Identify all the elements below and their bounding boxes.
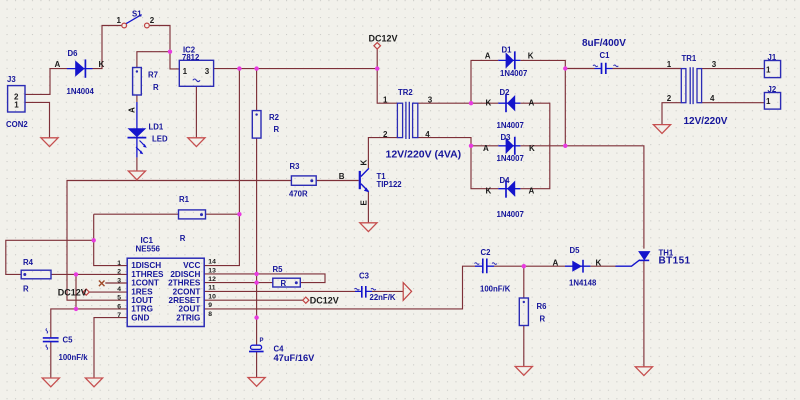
svg-text:1OUT: 1OUT	[131, 296, 153, 305]
wire bridge left bus top and D1 row	[471, 60, 498, 103]
svg-text:C1: C1	[600, 51, 611, 60]
svg-text:K: K	[486, 187, 492, 196]
svg-text:CON2: CON2	[6, 120, 28, 129]
wire D2 anode to D4 anode bus	[520, 103, 549, 189]
wire TR1 pin3 to J1	[702, 68, 765, 70]
port arrow after C3	[403, 283, 411, 301]
wire DC12V port drop	[376, 49, 378, 69]
IC1 pin name labels	[131, 261, 164, 322]
wire pin2 to pin6 vertical	[75, 274, 77, 309]
wire IC2 pin2 to ground	[195, 86, 197, 138]
ground at T1 emitter	[360, 223, 377, 232]
wire IC1 pin6 to C5	[51, 309, 127, 338]
wire VCC vertical to IC1 pin14	[204, 69, 239, 266]
wire S1 pin2 to IC2 pin1	[150, 26, 180, 69]
ground at TH1	[635, 367, 652, 376]
svg-text:C2: C2	[481, 248, 492, 257]
svg-text:12V/220V: 12V/220V	[684, 116, 728, 127]
wire LED cathode to ground	[136, 157, 138, 171]
wire R7 bottom to LED	[136, 95, 138, 102]
svg-text:J2: J2	[768, 85, 777, 94]
capacitor C2	[475, 259, 494, 274]
svg-text:DC12V: DC12V	[369, 34, 398, 44]
svg-text:2: 2	[150, 16, 155, 25]
svg-text:R: R	[153, 83, 159, 92]
svg-text:1TRG: 1TRG	[131, 305, 153, 314]
IC1 pin numbers	[117, 260, 121, 319]
ground at IC1 pin7	[85, 378, 102, 387]
svg-text:1RES: 1RES	[131, 287, 153, 296]
wire C5 bottom to ground	[50, 342, 52, 378]
ground at R6	[515, 367, 532, 376]
svg-text:6: 6	[117, 303, 121, 310]
svg-text:1N4007: 1N4007	[497, 121, 524, 130]
wire plus bus to C1	[565, 68, 594, 70]
wire D3 cathode to plus bus	[520, 145, 565, 147]
wire TR1 pin4 to J2	[702, 102, 765, 104]
resistor R4	[21, 270, 51, 279]
connector J1	[764, 61, 780, 78]
svg-text:4: 4	[425, 130, 430, 139]
svg-text:22nF/K: 22nF/K	[370, 293, 396, 302]
svg-text:3: 3	[428, 95, 433, 104]
svg-text:P: P	[260, 338, 264, 344]
svg-text:3: 3	[117, 277, 121, 284]
svg-text:1: 1	[117, 260, 121, 267]
wire D5 cathode to TH1 gate	[590, 265, 616, 267]
svg-text:K: K	[360, 160, 369, 166]
ground at TR1 pin2	[653, 125, 670, 134]
wire C3 to arrow port	[372, 290, 403, 292]
diode D3	[498, 137, 520, 155]
LED LD1	[128, 102, 147, 157]
wire TR2 pin3 to bridge	[418, 102, 471, 104]
svg-text:R4: R4	[23, 258, 34, 267]
svg-text:LED: LED	[152, 135, 168, 144]
svg-text:A: A	[485, 52, 491, 61]
wire R4 left loop to pin1 node	[6, 240, 94, 274]
svg-text:5: 5	[117, 295, 121, 302]
svg-text:R1: R1	[179, 195, 190, 204]
svg-text:12V/220V (4VA): 12V/220V (4VA)	[386, 148, 462, 160]
svg-text:2: 2	[667, 94, 672, 103]
resistor R7	[133, 68, 142, 96]
svg-text:R2: R2	[269, 113, 280, 122]
wire R1 right to VCC vertical	[206, 213, 240, 215]
wire R2 bottom to C4 and ground	[256, 138, 258, 378]
svg-text:3: 3	[205, 67, 210, 76]
svg-text:BT151: BT151	[659, 256, 691, 267]
wire trigger node to D5 anode	[524, 265, 565, 267]
svg-text:R: R	[23, 285, 29, 294]
wire IC1 pin10 to DC12V port	[204, 299, 303, 301]
ground at LED	[128, 171, 145, 180]
svg-text:D3: D3	[501, 133, 512, 142]
svg-text:D4: D4	[500, 176, 511, 185]
svg-text:A: A	[483, 144, 489, 153]
svg-text:K: K	[596, 258, 602, 267]
wire J3 pin2 to D6 anode	[25, 69, 67, 95]
svg-text:TR1: TR1	[682, 54, 697, 63]
switch S1	[122, 15, 150, 28]
svg-text:R: R	[180, 234, 186, 243]
wire plus bus to TH1 anode	[565, 146, 644, 249]
diode D2	[498, 94, 520, 112]
svg-text:E: E	[360, 200, 369, 206]
wire C2 to trigger node	[494, 265, 524, 267]
svg-text:K: K	[486, 99, 492, 108]
svg-text:13: 13	[208, 267, 216, 274]
svg-text:2THRES: 2THRES	[168, 279, 201, 288]
svg-text:1: 1	[14, 101, 19, 110]
diode D6	[67, 59, 93, 77]
svg-text:2OUT: 2OUT	[179, 305, 201, 314]
svg-text:1CONT: 1CONT	[131, 279, 159, 288]
svg-text:1THRES: 1THRES	[131, 270, 164, 279]
transformer TR1	[681, 67, 701, 104]
capacitor C4 polarized	[249, 345, 264, 351]
ground at C5	[42, 378, 59, 387]
svg-text:TIP122: TIP122	[377, 180, 403, 189]
svg-text:NE556: NE556	[136, 245, 161, 254]
svg-text:7: 7	[117, 312, 121, 319]
svg-text:100nF/k: 100nF/k	[59, 353, 89, 362]
svg-text:2CONT: 2CONT	[173, 287, 201, 296]
svg-text:C3: C3	[359, 272, 370, 281]
svg-text:10: 10	[208, 293, 216, 300]
wire R1 node to IC1 pin1	[94, 214, 128, 265]
svg-text:S1: S1	[132, 10, 142, 19]
svg-text:TR2: TR2	[398, 88, 413, 97]
power port DC12V at IC1 pin10	[303, 297, 309, 303]
small tilde pin marks on capacitors	[46, 65, 618, 350]
wire IC1 pin9 2OUT to C2	[204, 266, 475, 309]
wire DC12V port to IC1 pin4	[89, 291, 127, 293]
transformer TR2	[397, 102, 417, 139]
regulator IC2 7812	[179, 60, 213, 86]
wire TR2 pin2 to T1 collector	[368, 138, 397, 168]
thyristor TH1 BT151	[616, 252, 650, 266]
wire node to R7 top	[137, 52, 170, 68]
svg-text:1N4007: 1N4007	[500, 69, 527, 78]
svg-text:1: 1	[117, 16, 122, 25]
transistor T1 TIP122	[359, 168, 369, 192]
svg-text:1DISCH: 1DISCH	[131, 261, 161, 270]
svg-text:47uF/16V: 47uF/16V	[274, 353, 316, 363]
wire TR1 pin2 to ground	[662, 103, 681, 125]
svg-text:1: 1	[766, 66, 771, 75]
svg-text:R: R	[274, 125, 280, 134]
svg-text:1: 1	[766, 97, 771, 106]
svg-text:A: A	[128, 107, 137, 113]
svg-text:2: 2	[383, 130, 388, 139]
wire bridge left bus bottom D3 D4 rows	[471, 146, 498, 189]
wire J3 pin1 to ground	[25, 102, 50, 137]
ground at J3	[41, 138, 58, 147]
svg-text:R7: R7	[148, 71, 158, 80]
wire 12V bus IC2 pin3 to TR2	[214, 68, 378, 70]
svg-text:1N4148: 1N4148	[569, 278, 597, 287]
capacitor C1	[595, 63, 613, 74]
wire IC1 pin7 GND to ground	[94, 318, 127, 378]
svg-text:R: R	[281, 279, 287, 288]
wire IC1 pin13 loop to R5 right	[204, 274, 325, 283]
svg-text:R3: R3	[290, 162, 301, 171]
svg-text:LD1: LD1	[149, 123, 164, 132]
svg-text:1N4004: 1N4004	[67, 87, 95, 96]
wire IC1 pin3 stub	[105, 282, 127, 284]
power port DC12V top	[374, 43, 381, 49]
wire IC1 pin12 to R5 left	[204, 282, 273, 284]
capacitor C5	[43, 338, 59, 342]
wire T1 emitter to ground	[367, 192, 369, 223]
svg-text:1: 1	[667, 60, 672, 69]
svg-text:1N4007: 1N4007	[497, 210, 524, 219]
svg-text:A: A	[529, 187, 535, 196]
svg-text:J3: J3	[7, 75, 16, 84]
svg-text:GND: GND	[131, 313, 149, 322]
wire bus to R2 top	[256, 69, 258, 111]
svg-text:C4: C4	[274, 344, 285, 353]
wire IC1 pin5 1OUT to R3	[67, 181, 291, 301]
wire bus to TR2 pin1	[377, 69, 397, 104]
svg-text:DC12V: DC12V	[310, 295, 339, 305]
svg-text:DC12V: DC12V	[58, 288, 87, 298]
svg-text:A: A	[553, 258, 559, 267]
diode D5 1N4148	[565, 260, 590, 273]
svg-text:1: 1	[383, 95, 388, 104]
svg-text:2DISCH: 2DISCH	[170, 270, 200, 279]
resistor R5	[273, 278, 301, 287]
svg-text:K: K	[528, 52, 534, 61]
svg-text:7812: 7812	[182, 53, 200, 62]
wire TR2 pin4 to bridge lower	[418, 138, 471, 146]
capacitor C3	[355, 286, 372, 298]
svg-text:A: A	[529, 99, 535, 108]
svg-text:2TRIG: 2TRIG	[176, 313, 200, 322]
wire C1 to TR1 pin1	[613, 68, 682, 70]
resistor R6	[519, 298, 528, 326]
diode D1	[498, 51, 520, 69]
svg-text:B: B	[339, 172, 345, 181]
wire IC1 pin11 to C3	[204, 290, 355, 292]
svg-text:8: 8	[208, 311, 212, 318]
diode D4	[498, 180, 520, 198]
svg-text:R: R	[540, 315, 546, 324]
wire R4 right to IC1 pin2	[51, 273, 127, 275]
svg-text:14: 14	[208, 259, 216, 266]
svg-text:1N4007: 1N4007	[497, 154, 524, 163]
svg-text:12: 12	[208, 276, 216, 283]
pin number and polarity labels (black)	[14, 16, 771, 305]
svg-text:D5: D5	[570, 246, 581, 255]
resistor R1	[179, 210, 206, 219]
svg-text:3: 3	[712, 60, 717, 69]
resistor R2	[252, 111, 261, 139]
svg-text:R5: R5	[273, 265, 284, 274]
IC U1 NE556 box	[127, 258, 204, 326]
svg-text:K: K	[99, 60, 105, 69]
svg-text:2: 2	[117, 269, 121, 276]
wire D1 cathode to plus bus	[520, 60, 565, 145]
svg-text:VCC: VCC	[183, 261, 200, 270]
wire trigger node to R6	[523, 266, 525, 366]
svg-text:1: 1	[183, 67, 188, 76]
svg-text:4: 4	[710, 94, 715, 103]
svg-text:K: K	[529, 144, 535, 153]
wire D6 cathode to S1 pin1	[93, 26, 122, 69]
svg-text:470R: 470R	[289, 190, 308, 199]
wire R1 left	[94, 213, 179, 215]
svg-text:D6: D6	[68, 49, 79, 58]
connector J2	[764, 93, 780, 110]
svg-text:A: A	[55, 60, 61, 69]
ground at C4	[248, 378, 265, 387]
wire D2 row left	[471, 102, 498, 104]
svg-text:100nF/K: 100nF/K	[480, 284, 511, 293]
svg-text:2RESET: 2RESET	[169, 296, 201, 305]
svg-text:4: 4	[117, 286, 121, 293]
svg-text:8uF/400V: 8uF/400V	[582, 38, 626, 49]
power port DC12V at IC1 pin4	[83, 289, 89, 295]
wire R3 to T1 base	[316, 180, 359, 182]
ground at IC2	[188, 138, 205, 147]
svg-text:C5: C5	[63, 335, 74, 344]
svg-text:R6: R6	[537, 302, 548, 311]
wire TH1 cathode to ground	[643, 261, 645, 367]
no-connect X at IC1 pin3	[99, 281, 105, 287]
svg-text:J1: J1	[768, 53, 777, 62]
resistor R3	[291, 176, 316, 185]
svg-text:11: 11	[208, 285, 215, 292]
svg-text:9: 9	[208, 302, 212, 309]
svg-text:D2: D2	[500, 88, 511, 97]
svg-text:D1: D1	[502, 46, 513, 55]
connector J3	[8, 86, 25, 112]
